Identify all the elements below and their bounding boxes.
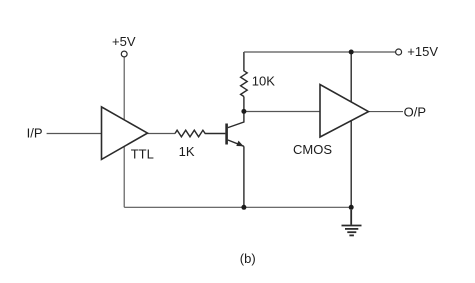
transistor Q1 emitter lead xyxy=(228,140,244,146)
node: collector junction dot xyxy=(241,109,246,114)
terminal: +5V open circle xyxy=(121,51,127,57)
wire: +15V rail drop through CMOS buffer to ground xyxy=(350,52,352,207)
wire: ground bottom rail xyxy=(124,206,351,208)
ground symbol xyxy=(342,210,362,236)
resistor 10K (vertical zigzag) xyxy=(241,69,248,97)
svg-text:TTL: TTL xyxy=(131,147,154,162)
transistor Q1 collector lead xyxy=(228,97,244,128)
wire: emitter down to ground rail xyxy=(243,146,245,207)
wire: CMOS output to O/P xyxy=(369,111,404,113)
wire: +15V top rail xyxy=(244,51,396,53)
wire: I/P input to TTL buffer xyxy=(47,133,102,135)
node: emitter/ground rail junction dot xyxy=(241,205,246,210)
svg-text:O/P: O/P xyxy=(404,105,426,120)
svg-text:CMOS: CMOS xyxy=(293,142,332,157)
svg-text:+15V: +15V xyxy=(407,44,438,59)
wire: resistor 1K to transistor base xyxy=(207,133,225,135)
terminal: +15V open circle xyxy=(396,49,402,55)
node: ground junction dot xyxy=(349,205,354,210)
resistor 1K (horizontal zigzag) xyxy=(175,130,207,137)
svg-text:1K: 1K xyxy=(179,144,195,159)
svg-text:+5V: +5V xyxy=(112,34,136,49)
wire: collector node to CMOS buffer input xyxy=(244,111,320,113)
svg-text:(b): (b) xyxy=(240,251,256,266)
node: top rail junction dot xyxy=(349,50,354,55)
wire: +5V supply drop through TTL buffer to ground rail xyxy=(123,57,125,208)
op-amp U2 CMOS buffer triangle xyxy=(320,85,369,138)
transistor Q1 emitter arrowhead xyxy=(236,141,243,147)
svg-text:I/P: I/P xyxy=(27,126,43,141)
wire: TTL output to resistor R1 xyxy=(148,133,176,135)
op-amp U1 TTL buffer triangle xyxy=(102,107,148,159)
wire: 10K top to +15V rail corner xyxy=(243,52,245,69)
transistor Q1 base bar xyxy=(225,124,228,145)
svg-text:10K: 10K xyxy=(252,74,275,89)
